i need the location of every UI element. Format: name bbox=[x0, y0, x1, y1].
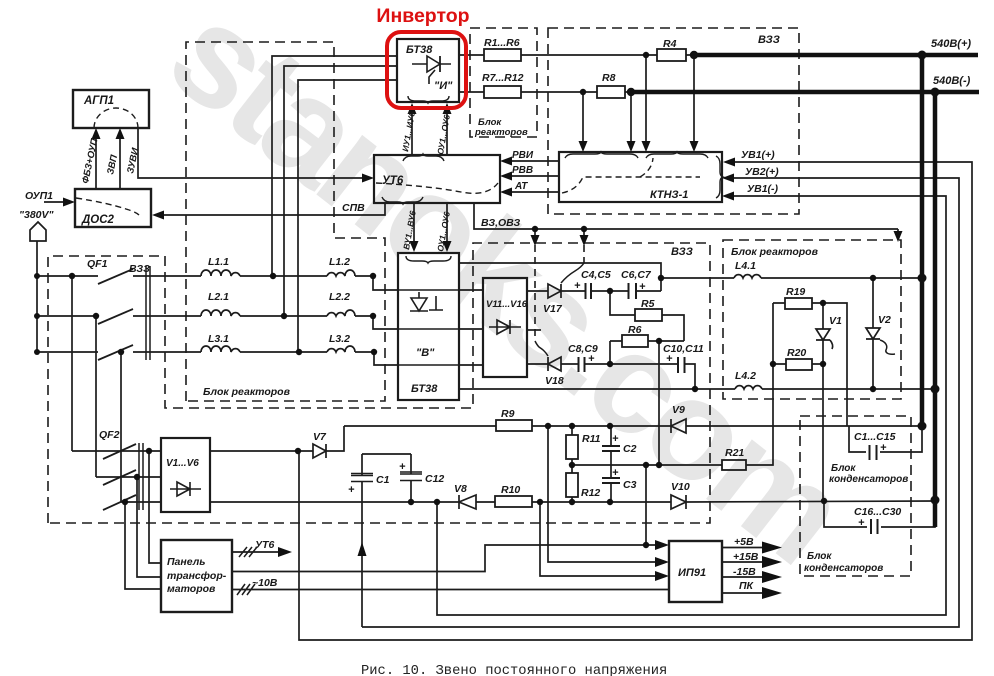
capacitor C8,C9 bbox=[579, 357, 585, 372]
squiggle V2 gate bbox=[880, 340, 895, 354]
wire: BT38-I pin3 to phase row3 bbox=[298, 80, 397, 352]
wire: V7 line from rectifier bbox=[210, 426, 344, 451]
arrowheads UT6 down to BT38-B bbox=[410, 241, 419, 252]
squiggle V18 gate bbox=[535, 341, 548, 356]
wire: C1...C15 loop bbox=[849, 426, 922, 452]
svg-text:V10: V10 bbox=[671, 481, 690, 493]
dashed stub inside BT38-B top section bbox=[428, 266, 430, 288]
resistor R20 bbox=[786, 359, 812, 370]
svg-text:+5В: +5В bbox=[734, 536, 754, 548]
block IP91 bbox=[669, 541, 722, 602]
svg-text:L2.1: L2.1 bbox=[208, 291, 229, 303]
capacitor C2 bbox=[602, 446, 620, 451]
svg-text:трансфор-: трансфор- bbox=[167, 570, 227, 582]
dashed block boundary: reactor block (middle-left) bbox=[186, 42, 385, 401]
svg-text:R21: R21 bbox=[725, 447, 744, 459]
svg-text:ВЗЗ: ВЗЗ bbox=[671, 246, 693, 258]
brace BT38-I bottom bbox=[408, 96, 449, 103]
capacitor C1 bbox=[351, 474, 373, 482]
svg-text:АГП1: АГП1 bbox=[83, 95, 114, 107]
wire: QF1-QF2 phase drop 2 bbox=[95, 316, 97, 477]
wire: phase row 3 bbox=[37, 352, 398, 365]
svg-text:конденсаторов: конденсаторов bbox=[829, 474, 908, 485]
inductor L3.2 bbox=[327, 346, 355, 352]
resistor R21 bbox=[722, 460, 746, 470]
capacitor C6,C7 bbox=[629, 283, 637, 299]
svg-text:R19: R19 bbox=[786, 286, 805, 298]
wire: R7...R12 / R8 line bbox=[459, 91, 631, 93]
arrowheads UT6 up to BT38-I bbox=[408, 103, 417, 114]
svg-text:ВЗЗ: ВЗЗ bbox=[129, 263, 150, 275]
thyristor V1 bbox=[816, 329, 833, 349]
node dots mid line bbox=[569, 462, 575, 468]
svg-text:R12: R12 bbox=[581, 487, 600, 499]
svg-text:R6: R6 bbox=[628, 324, 642, 336]
inductor L1.2 bbox=[327, 270, 355, 276]
block V1...V6 rectifier bbox=[161, 438, 210, 512]
arrowheads IP91 inputs bbox=[655, 540, 669, 550]
brace KTN3-1 top right bbox=[646, 152, 708, 158]
wire: QF2 row1 bbox=[72, 450, 161, 452]
svg-text:БТ38: БТ38 bbox=[406, 44, 433, 56]
node dots R4 bbox=[643, 52, 649, 58]
dashed arc inside AGP1 bbox=[94, 108, 138, 128]
wire: V18 branch C8C9 C10C11 bbox=[527, 364, 695, 389]
wire: 540V(-) bus bbox=[631, 90, 979, 95]
arrowheads DOS2 to AGP1 bbox=[92, 128, 101, 139]
dashed gate control line to V17 bbox=[583, 245, 585, 263]
svg-text:маторов: маторов bbox=[167, 583, 216, 595]
resistor R4 bbox=[657, 49, 686, 61]
svg-text:V1: V1 bbox=[829, 315, 842, 327]
wire: feed to IP91 input2 bbox=[548, 426, 662, 562]
inductor L2.1 bbox=[201, 310, 240, 316]
wire: V11..V16 middle stub bbox=[527, 329, 541, 331]
arrowheads UV into KTN3-1 bbox=[723, 158, 735, 167]
dashed curve inside UT6 bbox=[376, 183, 498, 193]
wire: IP91 outputs bbox=[722, 548, 766, 594]
svg-text:L4.2: L4.2 bbox=[735, 370, 756, 382]
switch QF1 blades and link bbox=[98, 269, 133, 360]
wire: BT38-B top wire to C6C7/L4.1 junction bbox=[459, 263, 661, 291]
capacitor C16...C30 bbox=[871, 519, 878, 534]
svg-text:С3: С3 bbox=[623, 479, 637, 491]
thyristor inside BT38-B bbox=[410, 292, 443, 311]
diode V9 bbox=[671, 419, 686, 433]
svg-text:С4,С5: С4,С5 bbox=[581, 269, 611, 281]
svg-text:ВЗЗ: ВЗЗ bbox=[758, 34, 780, 46]
wire: R5 branch bbox=[610, 291, 684, 341]
block transformer panel bbox=[161, 540, 232, 612]
switch QF2 blades and link bbox=[103, 444, 136, 510]
node dots minus line bbox=[408, 499, 414, 505]
svg-text:Блок реакторов: Блок реакторов bbox=[731, 246, 819, 258]
svg-text:R8: R8 bbox=[602, 72, 616, 84]
wire: UT6 arrows down to BT38-B bbox=[414, 203, 447, 246]
wire: QF1-QF2 phase drop 3 bbox=[120, 352, 122, 502]
svg-text:-15В: -15В bbox=[733, 566, 756, 578]
svg-text:УВ2(+): УВ2(+) bbox=[745, 166, 779, 178]
svg-text:R1...R6: R1...R6 bbox=[484, 37, 520, 49]
svg-text:Инвертор: Инвертор bbox=[376, 5, 469, 27]
hatch marks ~10V bbox=[237, 584, 255, 595]
wire: C12 vertical bbox=[410, 454, 412, 502]
node dot IP91 input1 bbox=[643, 542, 649, 548]
wire: UT6 stub arrow from panel bbox=[232, 551, 286, 553]
dashed curves inside KTN3-1 bbox=[562, 177, 700, 193]
wire: V8 / R10 / V10 minus line bbox=[210, 501, 935, 502]
svg-text:+15В: +15В bbox=[733, 551, 759, 563]
svg-text:АТ: АТ bbox=[514, 181, 528, 192]
svg-text:С2: С2 bbox=[623, 443, 637, 455]
wire: QF2 row2 bbox=[96, 476, 161, 478]
svg-text:R9: R9 bbox=[501, 408, 515, 420]
wire: mid line to R21 bbox=[572, 303, 773, 465]
arrowhead 380V into DOS2 bbox=[63, 198, 75, 207]
svg-text:+: + bbox=[880, 442, 887, 454]
arrowhead up into C1 leg bbox=[358, 542, 367, 556]
brace UT6 top bbox=[403, 154, 444, 161]
wire: QF2 drops to transformer panel bbox=[125, 451, 161, 589]
diode V17 bbox=[548, 284, 561, 298]
svg-text:С6,С7: С6,С7 bbox=[621, 269, 652, 281]
brace BT38-B top bbox=[406, 256, 451, 263]
svg-text:R4: R4 bbox=[663, 38, 677, 50]
svg-text:540В(-): 540В(-) bbox=[933, 75, 971, 87]
svg-text:L4.1: L4.1 bbox=[735, 260, 756, 272]
svg-text:ДОС2: ДОС2 bbox=[81, 214, 115, 226]
wire: V3,OV3 line bbox=[474, 203, 898, 241]
resistor R6 bbox=[622, 335, 648, 347]
block DOS2 bbox=[75, 189, 151, 227]
wire: AT line bbox=[507, 191, 559, 193]
wire: R1...R6 line bbox=[459, 54, 694, 56]
wire: BT38-B bottom long wire to L4.2 and 540- trunk bbox=[459, 388, 935, 390]
inductor L3.1 bbox=[201, 346, 240, 352]
wire: V17 branch C4C5 C6C7 bbox=[527, 290, 661, 292]
wire: UV2(+) line bbox=[362, 178, 959, 627]
block V11...V16 bbox=[483, 278, 527, 377]
wire: BT38-I pin1 to phase row1 bbox=[272, 56, 397, 276]
svg-text:R11: R11 bbox=[582, 433, 601, 445]
wire: 380V tap vertical bbox=[36, 241, 38, 352]
dashed box: upper reactor block (R1..R6/R7..R12) bbox=[470, 28, 537, 137]
resistor R19 bbox=[785, 298, 812, 309]
arrowhead UT6 stub bbox=[278, 547, 292, 557]
node dots on 380V tap bbox=[34, 273, 40, 279]
svg-text:~10В: ~10В bbox=[252, 577, 278, 589]
block KTN3-1 bbox=[559, 152, 722, 202]
node dot R6 right bbox=[656, 338, 662, 344]
wire: C16...C30 loop bbox=[824, 500, 935, 527]
capacitor C4,C5 bbox=[586, 283, 592, 299]
svg-text:L3.2: L3.2 bbox=[329, 333, 350, 345]
node dots mid of reactor rows bbox=[270, 273, 276, 279]
brace KTN3-1 top bbox=[565, 152, 638, 158]
wire: L4.1 line bbox=[661, 277, 922, 279]
node dots V3,OV3 bbox=[532, 226, 538, 232]
wire: phase row 2 bbox=[37, 316, 398, 329]
dashed curve inside DOS2 bbox=[76, 198, 139, 215]
capacitor C3 bbox=[602, 478, 620, 483]
svg-text:Панель: Панель bbox=[167, 556, 205, 568]
svg-text:Рис. 10. Звено постоянного нап: Рис. 10. Звено постоянного напряжения bbox=[361, 664, 667, 676]
svg-text:РВВ: РВВ bbox=[512, 165, 533, 176]
block BT38-B (rectifier) bbox=[398, 253, 459, 400]
resistor R9 bbox=[496, 420, 532, 431]
svg-text:V1...V6: V1...V6 bbox=[166, 458, 199, 469]
svg-text:"И": "И" bbox=[434, 80, 453, 92]
svg-text:"380V": "380V" bbox=[19, 209, 55, 221]
resistor R8 bbox=[597, 86, 625, 98]
svg-text:L1.1: L1.1 bbox=[208, 256, 229, 268]
svg-text:ВЗ,ОВЗ: ВЗ,ОВЗ bbox=[481, 217, 520, 229]
wire: 540V(-) vertical trunk bbox=[933, 92, 938, 527]
red highlight box bbox=[387, 32, 466, 108]
resistor R10 bbox=[495, 496, 532, 507]
svg-text:R20: R20 bbox=[787, 347, 806, 359]
svg-text:R7...R12: R7...R12 bbox=[482, 72, 524, 84]
svg-text:Блок: Блок bbox=[807, 551, 832, 562]
dashed box B33 (top right, KTN3-1) bbox=[548, 28, 799, 214]
svg-text:конденсаторов: конденсаторов bbox=[804, 563, 883, 574]
node dots L4.1/L4.2 V1 V2 bbox=[870, 275, 876, 281]
wire: AGP1 output to UT6 bbox=[138, 128, 367, 178]
svg-text:БТ38: БТ38 bbox=[411, 383, 438, 395]
resistor R12 bbox=[566, 473, 578, 497]
wire: SPV line UT6 to DOS2 bbox=[159, 203, 385, 215]
arrowheads V3,OV3 branches down bbox=[531, 235, 540, 246]
node dots right of reactor rows bbox=[370, 273, 376, 279]
capacitor C10,C11 bbox=[678, 357, 685, 373]
svg-text:"В": "В" bbox=[416, 347, 435, 359]
arrowhead into UT6 from AGP1 bbox=[362, 174, 374, 183]
svg-text:V9: V9 bbox=[672, 404, 685, 416]
svg-text:УТ6: УТ6 bbox=[382, 175, 404, 187]
diode V7 bbox=[313, 444, 326, 458]
resistor R1...R6 bbox=[484, 49, 521, 61]
resistor R11 bbox=[566, 435, 578, 459]
svg-text:РВИ: РВИ bbox=[512, 150, 534, 161]
svg-text:QF1: QF1 bbox=[87, 258, 108, 270]
svg-text:L3.1: L3.1 bbox=[208, 333, 229, 345]
hatch marks UT6 stub bbox=[239, 547, 257, 557]
dashed gate control line to V18 bbox=[534, 245, 536, 341]
wire: RVI line KTN3 to UT6 bbox=[507, 160, 559, 162]
svg-text:СПВ: СПВ bbox=[342, 202, 365, 214]
block UT6 bbox=[374, 155, 500, 203]
wire: DOS2 to AGP1 feedback arrows bbox=[96, 132, 120, 189]
block AGP1 bbox=[73, 90, 149, 128]
wire: UV1(-) line bbox=[437, 196, 946, 615]
arrowheads RVI RVV AT into UT6 bbox=[500, 157, 512, 166]
wire: V2 column bbox=[872, 278, 874, 389]
node dots 540V bus bbox=[918, 51, 927, 60]
svg-text:+: + bbox=[858, 517, 865, 529]
block BT38-I (top inverter) bbox=[397, 39, 459, 102]
svg-text:ИП91: ИП91 bbox=[678, 567, 706, 579]
wire: BT38-B to V11..V16 pins bbox=[459, 290, 483, 365]
node dots R9/V9 line bbox=[545, 423, 551, 429]
svg-text:V18: V18 bbox=[545, 375, 564, 387]
node dot C4C5-C6C7 bbox=[607, 288, 613, 294]
dashed box: reactor block right (L4.1/L4.2) bbox=[723, 240, 901, 399]
svg-text:С1...С15: С1...С15 bbox=[854, 431, 896, 443]
svg-text:реакторов: реакторов bbox=[474, 127, 528, 138]
wire: R5/R6 junction down to R21 mid-line bbox=[658, 341, 660, 465]
node dots R8 bbox=[580, 89, 586, 95]
wire: BT38-I pin2 to phase row2 bbox=[284, 66, 397, 316]
dashed box: capacitor block bbox=[800, 416, 911, 576]
svg-text:L2.2: L2.2 bbox=[329, 291, 350, 303]
node dots QF2 rows bbox=[146, 448, 152, 454]
wire: R12 C3 column bbox=[572, 465, 611, 502]
squiggle V17 gate bbox=[561, 263, 584, 283]
node dot C6C7-L4.1 junction bbox=[658, 275, 664, 281]
wire: QF2 row3 bbox=[121, 501, 161, 503]
wire: UV1(+) line bbox=[299, 162, 972, 640]
svg-text:+: + bbox=[348, 484, 355, 496]
wire: R20 network bbox=[773, 363, 823, 365]
diode inside V11..V16 bbox=[489, 320, 521, 334]
brace KTN3-1 right bbox=[716, 156, 723, 198]
resistor R7...R12 bbox=[484, 86, 521, 98]
wire: R9 / V9 line bbox=[344, 425, 922, 427]
inductor L2.2 bbox=[327, 310, 355, 316]
svg-text:+: + bbox=[612, 433, 619, 445]
svg-text:ОУП1: ОУП1 bbox=[25, 190, 53, 202]
svg-text:УВ1(+): УВ1(+) bbox=[741, 149, 775, 161]
wire: R11 C2 column bbox=[572, 426, 611, 465]
node dots V7 line bbox=[295, 448, 301, 454]
arrowheads IP91 outputs bbox=[762, 542, 782, 554]
wire: C1 C12 top rail bbox=[362, 453, 411, 455]
svg-text:+: + bbox=[399, 461, 406, 473]
svg-text:С12: С12 bbox=[425, 473, 444, 485]
svg-text:+: + bbox=[666, 353, 673, 365]
svg-text:V11...V16: V11...V16 bbox=[486, 299, 528, 310]
arrowheads KTN3-1 inputs from R4 R8 bbox=[579, 141, 588, 152]
inductor L1.1 bbox=[201, 270, 240, 276]
diode V8 bbox=[459, 495, 476, 509]
node dots QF1 rows to QF2 drops bbox=[69, 273, 75, 279]
brace UT6 bottom bbox=[382, 197, 423, 204]
svg-text:R5: R5 bbox=[641, 298, 655, 310]
wire: UT6 firing arrows up to BT38-I bbox=[412, 109, 447, 154]
svg-text:V17: V17 bbox=[543, 303, 563, 315]
inductor L4.2 bbox=[735, 386, 762, 389]
wire: RVV line bbox=[507, 175, 559, 177]
svg-text:+: + bbox=[612, 467, 619, 479]
wire: R6 branch bbox=[610, 341, 684, 364]
svg-text:+: + bbox=[588, 353, 595, 365]
svg-text:V2: V2 bbox=[878, 314, 891, 326]
wire: QF1-QF2 phase drop 1 bbox=[71, 276, 73, 451]
capacitor C12 bbox=[400, 472, 422, 481]
svg-text:Блок реакторов: Блок реакторов bbox=[203, 386, 291, 398]
arrowhead SPV into DOS2 bbox=[152, 211, 164, 220]
wire: feed to IP91 input1 bbox=[232, 465, 662, 572]
svg-text:УТ6: УТ6 bbox=[255, 539, 275, 551]
svg-text:+: + bbox=[574, 280, 581, 292]
svg-text:QF2: QF2 bbox=[99, 429, 120, 441]
diode inside V1..V6 bbox=[170, 482, 201, 496]
wire: feed to IP91 input3 bbox=[540, 502, 662, 576]
resistor R5 bbox=[635, 309, 662, 321]
svg-text:R10: R10 bbox=[501, 484, 520, 496]
wire: 540V(+) bus bbox=[694, 53, 978, 58]
svg-text:+: + bbox=[639, 281, 646, 293]
wire: KTN3-1 drive arrows from R8 and R4 bbox=[583, 55, 694, 146]
node dots C8C9 line bbox=[607, 361, 613, 367]
wire: phase row 1 bbox=[37, 276, 398, 290]
svg-text:УВ1(-): УВ1(-) bbox=[747, 183, 779, 195]
diode V10 bbox=[671, 495, 686, 509]
inductor L4.1 bbox=[734, 275, 761, 278]
capacitor C1...C15 bbox=[870, 445, 877, 460]
wire: OUP1 380V input arrow line bbox=[44, 201, 67, 203]
thyristor V2 bbox=[866, 328, 880, 339]
wire: C1 vertical to bottom frame bbox=[361, 454, 363, 627]
thyristor inside BT38-I bbox=[412, 63, 451, 65]
svg-text:L1.2: L1.2 bbox=[329, 256, 350, 268]
wire: R19 network bbox=[773, 303, 847, 426]
svg-text:V7: V7 bbox=[313, 431, 327, 443]
wire: 540V(+) vertical trunk bbox=[920, 55, 925, 426]
svg-text:ПК: ПК bbox=[739, 580, 755, 592]
svg-text:V8: V8 bbox=[454, 483, 467, 495]
svg-text:КТНЗ-1: КТНЗ-1 bbox=[650, 189, 688, 201]
node OUP1 380V terminal (pentagon) bbox=[30, 222, 46, 241]
wire: V1 column bbox=[822, 303, 824, 501]
svg-text:540В(+): 540В(+) bbox=[931, 38, 971, 50]
svg-text:С1: С1 bbox=[376, 474, 390, 486]
dashed block boundary: big lower region with B33 label bbox=[48, 243, 710, 523]
diode V18 bbox=[548, 357, 561, 371]
wire: ~10V line to IP91 bbox=[232, 589, 669, 591]
svg-text:Блок: Блок bbox=[831, 463, 856, 474]
